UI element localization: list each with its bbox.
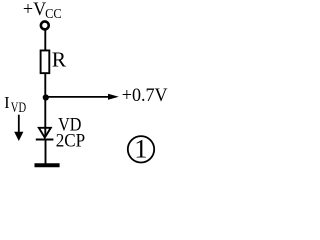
current arrow IVD <box>14 115 23 141</box>
label IVD <box>4 93 26 116</box>
svg-text:1: 1 <box>134 134 147 164</box>
wire resistor to node <box>44 74 46 99</box>
svg-text:VD: VD <box>11 100 27 116</box>
svg-text:CC: CC <box>45 7 62 22</box>
ground <box>35 163 60 167</box>
wire diode to ground <box>45 141 47 164</box>
wire node to output arrow <box>46 96 110 98</box>
diode VD triangle <box>39 128 51 138</box>
arrowhead to +0.7V <box>108 94 119 100</box>
svg-text:2CP: 2CP <box>56 131 85 152</box>
svg-text:R: R <box>52 48 67 72</box>
svg-text:+V: +V <box>23 0 47 20</box>
diode cathode bar <box>36 138 54 140</box>
node junction dot <box>43 94 49 100</box>
node label 1 circled <box>128 134 154 164</box>
wire node to diode <box>44 98 46 137</box>
wire circle to resistor <box>44 31 46 51</box>
resistor R <box>41 50 50 73</box>
svg-text:I: I <box>4 93 10 112</box>
svg-text:+0.7V: +0.7V <box>122 86 168 106</box>
power label +VCC <box>23 0 62 22</box>
terminal circle <box>41 21 49 29</box>
